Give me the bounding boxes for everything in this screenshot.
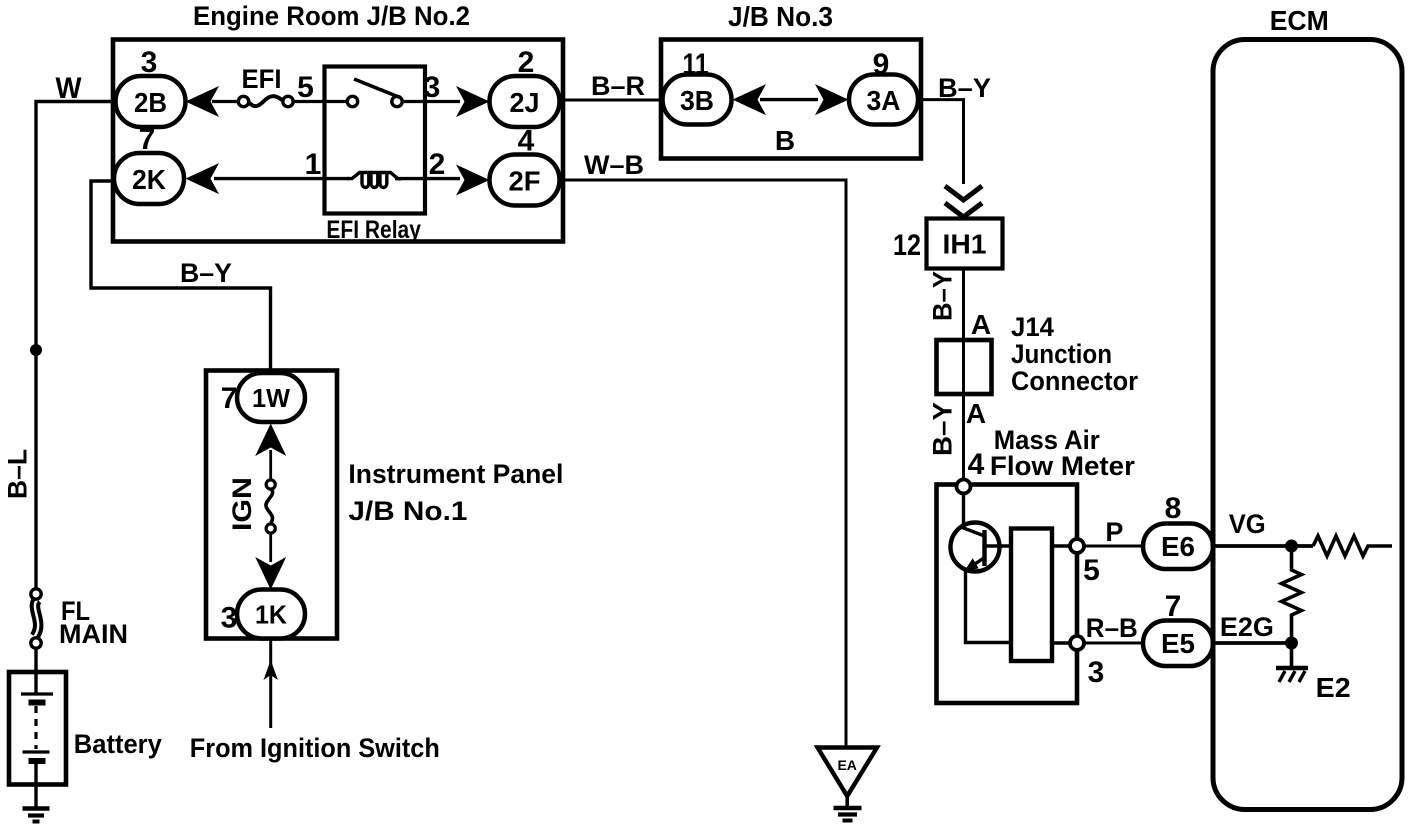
svg-text:EA: EA [837,757,856,773]
svg-text:3: 3 [424,71,441,104]
svg-text:3: 3 [141,46,158,79]
svg-text:E5: E5 [1161,628,1195,659]
svg-text:7: 7 [139,123,156,156]
junction block Engine Room J/B No.2 [113,40,563,242]
node pin 3 (MAF) [1070,636,1084,650]
svg-text:B–Y: B–Y [928,402,958,456]
svg-text:11: 11 [683,48,709,81]
wire collector (pin4 to transistor) [964,494,985,537]
wire from ignition switch [269,639,272,729]
svg-text:VG: VG [1229,509,1266,539]
relay switch contacts [347,79,402,107]
junction block Instrument Panel J/B No.1 [206,371,337,639]
ECM box [1213,40,1402,810]
svg-text:B–L: B–L [3,449,33,499]
MAF box Mass Air Flow Meter [937,485,1078,704]
svg-text:7: 7 [1165,590,1182,623]
svg-text:B–Y: B–Y [180,258,232,288]
node pin 5 (MAF) [1070,539,1084,553]
wire arrow to switch [269,450,272,480]
svg-text:7: 7 [221,382,238,415]
svg-text:2: 2 [429,148,446,181]
fuse FL MAIN [31,589,41,648]
svg-text:2: 2 [518,46,535,79]
svg-text:W: W [56,72,83,105]
svg-text:IGN: IGN [227,477,257,531]
wire R-B (pin3 to E5) [1084,642,1143,645]
connector E5 [1143,621,1213,667]
junction block J/B No.3 [661,40,921,159]
ground E2 [1276,649,1308,682]
arrow into 3B [733,84,767,115]
connector E6 [1143,524,1213,570]
wire between arrows [760,98,818,101]
svg-text:B–R: B–R [591,71,645,101]
wire emitter (transistor to pin3 row) [966,570,1012,643]
svg-text:A: A [971,309,991,340]
wire P (pin5 to E6) [1084,545,1143,548]
svg-text:3: 3 [1088,656,1105,689]
battery [9,648,66,809]
svg-text:Junction: Junction [1011,339,1112,369]
relay box EFI Relay [325,67,426,214]
arrow double chevron into IH1 [945,186,982,217]
svg-text:9: 9 [873,48,890,81]
svg-text:2J: 2J [510,87,540,118]
wire coil to arrow 2F [395,177,460,180]
svg-text:B–Y: B–Y [938,73,991,103]
svg-text:Instrument Panel: Instrument Panel [348,459,563,489]
wire switch to arrow down [269,533,272,562]
svg-text:MAIN: MAIN [59,619,128,649]
svg-text:ECM: ECM [1270,5,1329,36]
fuse EFI [238,96,293,107]
wire B-R (2J to 3B) [560,99,662,102]
svg-text:E2: E2 [1316,672,1351,703]
junction connector J14 [937,340,992,394]
svg-text:E6: E6 [1161,531,1195,562]
svg-text:5: 5 [1083,554,1100,587]
svg-text:EFI: EFI [242,64,282,94]
relay coil [347,173,401,188]
wire switch to arrow 2J [402,100,460,103]
wire W-B (2F to EA ground) [560,180,847,748]
svg-text:2B: 2B [134,87,167,118]
wire coil row: 2K arrow to coil [214,177,349,180]
svg-text:8: 8 [1165,492,1182,525]
svg-text:3: 3 [221,602,238,635]
node pin 4 (MAF) [957,480,971,494]
node E2G [1285,637,1298,650]
svg-text:B: B [775,125,795,156]
wire VG (E6 into ECM) [1213,544,1313,548]
svg-text:J14: J14 [1011,312,1054,342]
wire B-Y (IH1 to MAF pin 4) [962,269,965,481]
svg-text:4: 4 [968,448,985,481]
resistor block (MAF) [1011,529,1052,662]
svg-text:3B: 3B [680,85,714,116]
svg-text:4: 4 [518,125,535,158]
node VG [1285,540,1298,553]
wire 2B arrow to fuse [212,100,239,103]
arrow into 2K [186,163,220,194]
svg-text:2F: 2F [509,166,541,197]
svg-text:Connector: Connector [1011,366,1138,396]
svg-text:J/B No.3: J/B No.3 [728,1,833,32]
wire resistor to node pin5 [1052,544,1070,547]
connector 2B [116,76,186,127]
arrow into 2B [186,86,220,117]
node junction on W wire [30,344,42,356]
arrow up into 1W [255,424,286,457]
connector 2K [114,153,184,204]
wire W (battery feed to 2B) [36,102,113,590]
svg-text:A: A [966,398,986,429]
wire B-Y (2K to 1W) [91,181,271,374]
connector IH1 [927,219,1003,269]
svg-text:EFI Relay: EFI Relay [326,216,421,244]
svg-text:W–B: W–B [584,150,644,180]
svg-text:R–B: R–B [1086,613,1138,643]
ground (battery) [23,809,50,822]
switch IGN [266,480,275,533]
resistor (vertical, VG to E2G) [1282,546,1302,639]
arrow down into 1K [255,557,286,590]
wire fuse to relay [294,100,348,103]
svg-text:B–Y: B–Y [928,271,958,321]
resistor (horizontal, VG) [1313,536,1392,556]
svg-text:From Ignition Switch: From Ignition Switch [190,733,440,763]
svg-text:1W: 1W [252,383,290,413]
svg-text:3A: 3A [867,85,901,116]
svg-text:E2G: E2G [1220,612,1274,642]
connector 2J [490,76,560,127]
svg-text:P: P [1105,517,1123,547]
arrowhead (from ignition switch) [264,660,278,680]
svg-text:Engine Room J/B No.2: Engine Room J/B No.2 [193,1,470,31]
svg-text:12: 12 [893,229,921,262]
svg-text:Battery: Battery [74,729,162,759]
svg-text:IH1: IH1 [943,229,987,260]
connector 3B [663,75,732,125]
arrow into 2F [456,165,490,196]
arrow into 2J [456,86,490,117]
connector 1W [237,373,305,422]
transistor Q (MAF) [951,523,1012,572]
wire E2G (E5 into ECM) [1213,641,1292,645]
connector 1K [237,590,305,639]
svg-text:1: 1 [305,148,322,181]
connector 2F [490,155,560,206]
ground EA [818,748,878,821]
svg-text:J/B No.1: J/B No.1 [348,496,467,526]
svg-text:5: 5 [297,71,314,104]
connector 3A [849,75,918,125]
svg-text:2K: 2K [132,164,166,195]
wire B-Y (3A to IH1) [918,100,964,184]
arrow toward 3A [815,84,849,115]
svg-text:1K: 1K [255,600,287,630]
wire resistor to node pin3 [1052,641,1070,644]
svg-text:Flow Meter: Flow Meter [990,451,1136,481]
